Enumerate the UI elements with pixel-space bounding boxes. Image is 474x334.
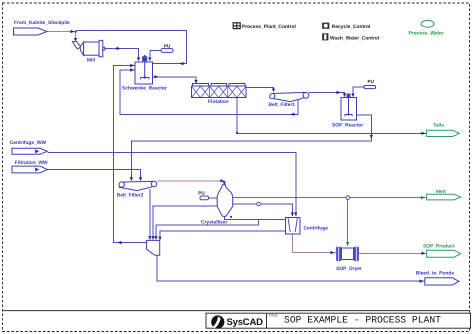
svg-text:Process_Water: Process_Water [409, 31, 444, 37]
svg-text:Centrifuge_WW: Centrifuge_WW [10, 140, 47, 146]
svg-text:TITLE: TITLE [269, 313, 279, 317]
svg-text:Process_Plant_Control: Process_Plant_Control [242, 24, 296, 30]
svg-text:SOP_Dryer: SOP_Dryer [336, 266, 362, 272]
svg-text:SysCAD: SysCAD [227, 317, 264, 328]
svg-text:From_Kalnite_Stockpile: From_Kalnite_Stockpile [14, 20, 70, 26]
svg-text:PU: PU [164, 44, 171, 49]
svg-text:Recycle_Control: Recycle_Control [332, 24, 371, 30]
svg-text:SOP_Reactor: SOP_Reactor [332, 122, 363, 128]
svg-text:Schwenke_Reactor: Schwenke_Reactor [122, 85, 167, 91]
svg-text:Belt_Filter1: Belt_Filter1 [269, 102, 296, 108]
svg-text:Vent: Vent [436, 189, 447, 195]
svg-text:Crystallizer: Crystallizer [201, 219, 227, 225]
svg-text:Tails: Tails [433, 122, 444, 128]
svg-text:Wash_Water_Control: Wash_Water_Control [330, 35, 380, 41]
svg-text:PU: PU [198, 191, 205, 196]
svg-text:Filtration_WW: Filtration_WW [15, 160, 48, 166]
svg-text:Bleed_to_Ponds: Bleed_to_Ponds [416, 270, 455, 276]
svg-text:Belt_Filter2: Belt_Filter2 [117, 193, 144, 199]
svg-text:Flotation: Flotation [208, 99, 229, 105]
svg-text:SOP EXAMPLE - PROCESS PLANT: SOP EXAMPLE - PROCESS PLANT [284, 315, 441, 326]
svg-text:Mill: Mill [87, 57, 96, 63]
svg-text:Centrifuge: Centrifuge [304, 226, 329, 232]
svg-text:PU: PU [368, 79, 375, 84]
svg-text:SOP_Product: SOP_Product [423, 244, 455, 250]
